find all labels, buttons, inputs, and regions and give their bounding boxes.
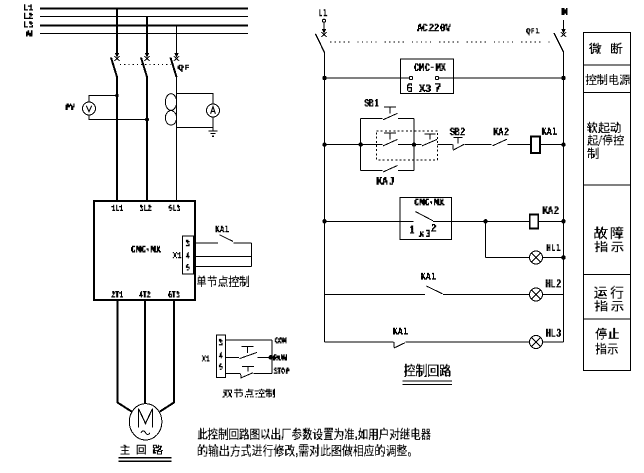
terminal L1 [323,19,326,22]
pin 3L2 [140,205,152,211]
module U2 box [401,59,454,94]
wire block left [360,119,362,171]
pin 5 dual [219,363,223,370]
linkage dashed box [377,131,438,160]
wire pin3 a [194,242,219,244]
arrow L1 [321,22,327,37]
pin 1 [410,226,414,234]
bus L3 [40,25,248,27]
wire SB1 branch b [398,118,414,120]
label COM [275,337,287,343]
label dual-node control [222,389,275,398]
wire pin5 [194,265,252,267]
button SB1 [383,107,398,120]
wire 4T2 drop [144,300,146,404]
wire rung2 a [325,144,361,146]
legend softstart line2 [587,135,624,146]
wire phase3 drop [176,26,178,54]
pin 4 [186,252,190,259]
wire phase1 mid [116,77,118,201]
wire left rail [324,53,326,343]
wire HL1 b [543,257,564,259]
label QF [178,65,190,72]
node rail2-N [561,142,565,146]
node PV-phase2 [145,118,149,122]
legend breaker [589,43,623,54]
terminal block X1 [183,236,194,274]
label X1 dual [202,355,210,361]
label L1 ctrl [319,9,327,16]
lamp HL1 [530,251,543,264]
node block-R [412,142,416,146]
wire rung4 a [325,294,425,296]
label KA2 contact [494,128,509,136]
node block-L [359,142,363,146]
label CMC-MX U3 [414,199,444,206]
button SB2a linked [383,133,398,146]
pin 4T2 [139,291,151,298]
wire pin4 [194,255,252,257]
button STOP contact [241,367,254,378]
wire phase2 mid [146,77,148,201]
label KA1 stop [393,328,408,335]
note line1 [198,428,431,440]
wire rung2 d [465,144,492,146]
ammeter PA [207,104,220,117]
wire rung3 b [452,220,530,222]
label L3 [24,21,33,27]
pin X3 U2 [419,85,431,93]
wire rung3 a [325,220,400,222]
legend column box [584,33,631,371]
arrow N [561,20,567,37]
label N ctrl [562,8,568,15]
arrow phase3 [174,53,180,61]
contact KA1 [220,235,234,242]
contact U3 internal [416,212,434,221]
terminal block X1 dual [216,335,225,377]
label main circuit [121,445,164,455]
contact KAJ [383,166,398,173]
underline main circuit [119,458,172,462]
label X1 [173,252,182,258]
legend divider 5 [584,318,631,320]
wire 6T3 drop [160,300,174,412]
legend stop line1 [595,328,619,340]
legend control power [585,74,629,85]
label SB1 [365,99,379,107]
wire CT top [177,94,214,105]
wire rung5 b [405,341,529,343]
soft starter U1 box [94,201,195,300]
wire right rail [563,52,565,342]
pin X3 U3 [419,230,430,237]
wire 2T1 drop [118,300,132,412]
label KAJ [377,177,395,185]
wire STOP b [254,373,273,375]
wire rung3 c [538,220,563,222]
pin 7 [435,83,441,92]
legend stop line2 [595,343,617,355]
arrow phase1 [114,53,120,61]
wire phase2 drop [146,17,148,54]
label HL1 [547,244,561,251]
pin 7 terminal [435,76,438,79]
transformer CT [165,94,176,125]
bus L2 [40,16,248,18]
wire rung1 in [400,77,409,79]
node rail3b-N [561,255,565,259]
wire rung1 a [325,77,401,79]
coil KA2 [530,215,539,229]
wire PV top [89,96,117,103]
voltmeter PV [83,102,96,115]
legend divider 4 [584,274,631,276]
label RUN [273,354,287,360]
module U3 box [400,198,452,240]
breaker QF1 link [330,41,552,43]
lamp HL2 [530,288,543,301]
wire RUN a [225,356,239,358]
pin 3 [186,240,190,247]
contact KA2 [493,139,508,146]
pin 5L3 [169,205,181,211]
breaker QF pole1 [111,58,117,78]
ground [209,128,218,137]
wire COM-STOP link [271,340,273,373]
legend run line2 [594,300,623,311]
wire block right [413,119,415,171]
wire mid branch b [398,144,414,146]
wire PV bottom [89,115,147,120]
wire rung2 f [540,144,564,146]
pin 6 terminal [409,76,412,79]
pin 4 dual [219,352,223,359]
label L1 [24,4,33,10]
label PV [66,104,75,111]
node rail1-N [561,76,565,80]
pin 2T1 [111,291,123,298]
wire rung4 b [443,294,530,296]
arrow phase2 [144,53,150,61]
label KA2 coil [543,206,559,214]
button SB2b linked [422,134,437,146]
coil KA1 [531,137,540,154]
wire KAJ branch a [361,170,383,172]
wire rung5 a [325,341,394,343]
lamp HL3 [530,336,543,349]
wire mid branch a [361,144,383,146]
label KA1 coil [542,128,557,135]
label HL2 [546,279,561,287]
label control circuit [404,364,450,377]
legend run line1 [594,286,623,299]
legend fault line2 [594,241,623,252]
button SB2 stop [453,137,464,150]
wire rung4 c [543,294,564,296]
label QF1 [526,28,540,35]
label SB2 [450,128,465,136]
label CMC-MX U1 [131,246,161,253]
wire RUN b [258,356,271,358]
node rung3 tap [483,219,487,223]
legend softstart line3 [587,148,598,159]
pin 1L1 [111,205,123,211]
wire STOP a [225,373,240,375]
label AC220V [417,24,451,32]
node rail3-L [322,219,326,223]
wire rung2 c [438,144,453,146]
legend softstart line1 [587,122,620,133]
bus N [40,33,248,35]
wire KAJ branch b [398,170,414,172]
breaker QF pole3 [171,58,177,78]
wire CT bottom [177,117,214,128]
node rail3-N [561,219,565,223]
wire SB1 branch a [361,118,383,120]
wire phase3 mid [176,77,178,201]
node rail1-L [322,76,326,80]
wire rung5 c [543,341,564,343]
pin 3 dual [219,339,223,346]
node PV-phase1 [115,94,118,97]
node rail2-L [322,142,326,146]
wire phase1 drop [116,9,118,54]
button RUN contact [240,346,258,358]
pin 6 [407,83,412,92]
label CMC-MX U2 [414,63,446,71]
pin 6T3 [168,291,180,298]
wire rung2 b [414,144,422,146]
legend divider 1 [584,64,631,66]
wire rung1 out [439,77,454,79]
motor M [129,404,162,440]
legend fault line1 [594,227,623,240]
underline control circuit [403,381,453,385]
wire COM [225,339,272,341]
contact KA1 stop [394,342,405,348]
label KA1 contact [216,226,230,233]
node RUN [269,355,274,360]
breaker QF link [120,64,171,66]
contact KA1 run [427,286,443,294]
breaker QF pole2 [141,58,147,78]
legend divider 2 [584,91,631,93]
label KA1 run [421,273,436,280]
label L2 [24,13,33,19]
pin 2 [431,224,436,232]
label N [26,30,33,36]
pin 5 [186,264,190,271]
label single-node control [197,276,249,288]
wire pins junction [251,243,253,266]
label HL3 [546,329,561,337]
bus L1 [40,8,248,10]
breaker QF1 pole L [316,34,325,53]
label STOP [274,368,290,374]
wire rung3 in [400,220,414,222]
wire rung1 b [454,77,564,79]
wire rung2 e [508,144,532,146]
legend divider 3 [584,184,631,186]
breaker QF1 pole N [554,33,564,52]
wire rung3 out [433,220,452,222]
wire HL1 drop [485,221,487,257]
wire HL1 a [486,257,530,259]
wire pin3 b [234,242,252,244]
note line2 [198,444,411,457]
